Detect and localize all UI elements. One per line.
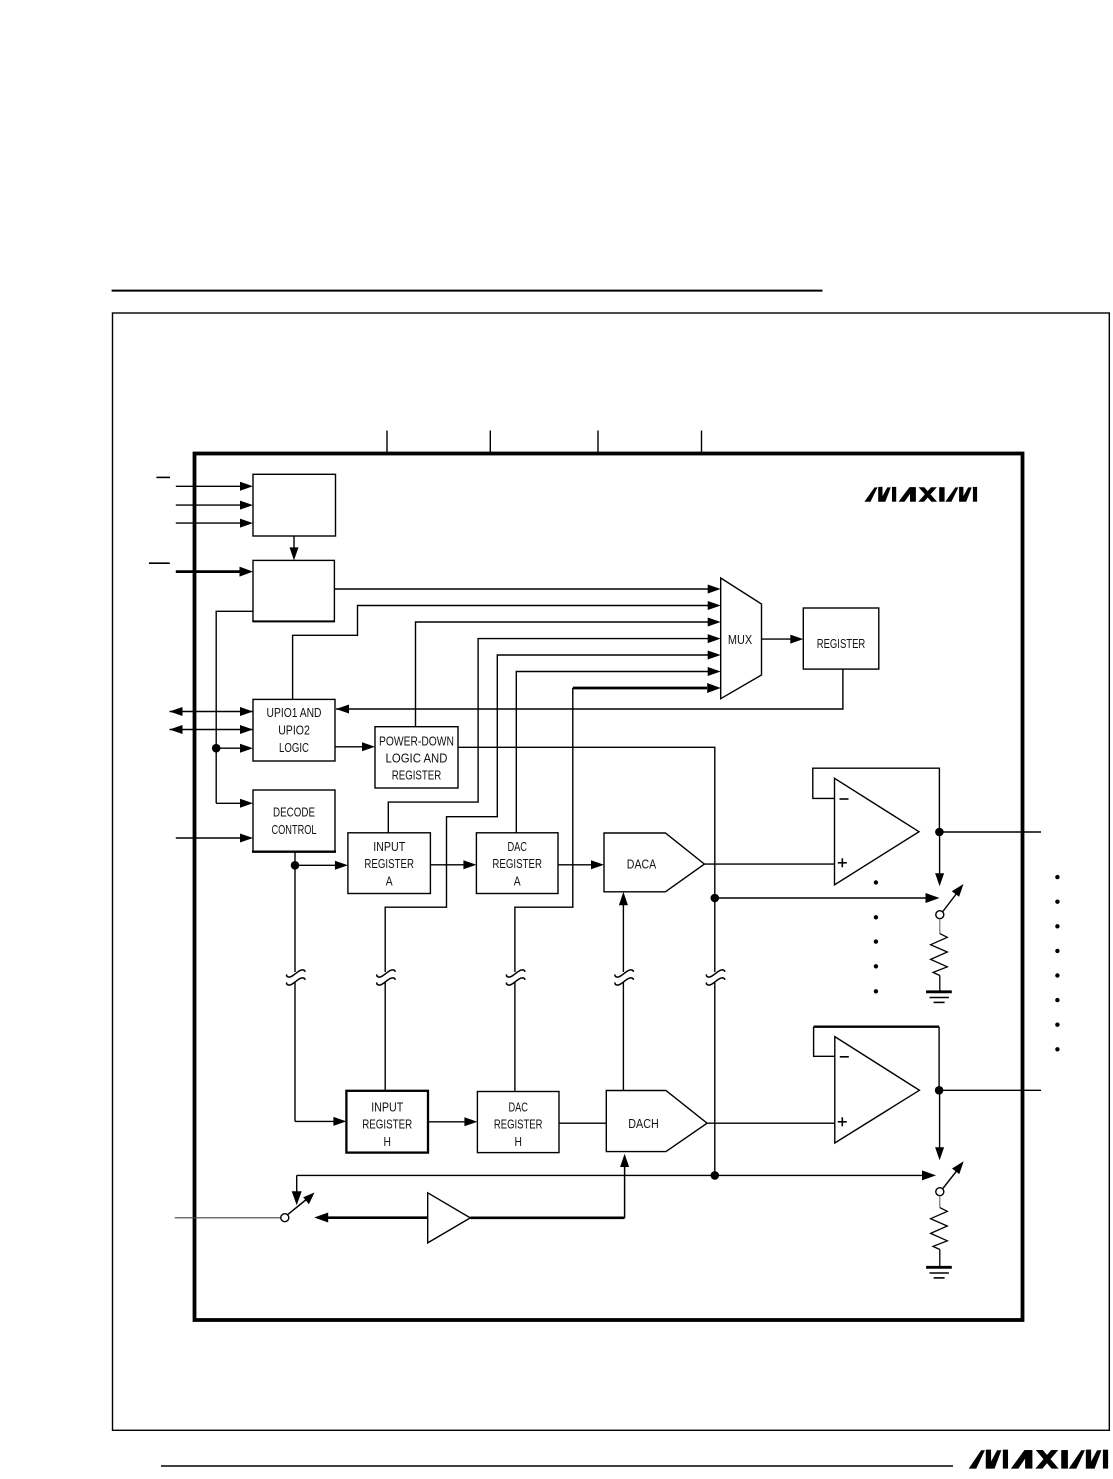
control logic box U2 <box>252 560 335 621</box>
label INPUT REGISTER H <box>362 1099 412 1149</box>
svg-text:DECODE: DECODE <box>273 805 315 820</box>
mux U10 <box>721 578 762 699</box>
svg-text:REGISTER: REGISTER <box>364 858 414 872</box>
DAC register H box U12 <box>477 1092 559 1153</box>
wire op-amp A output OUTA <box>939 831 1041 833</box>
svg-text:REGISTER: REGISTER <box>362 1117 412 1132</box>
wire DACH output to op-amp H <box>707 1122 835 1124</box>
figure outer border <box>113 313 1110 1430</box>
op-amp H U16 <box>835 1037 920 1143</box>
label UPIO1 AND UPIO2 LOGIC <box>267 705 322 756</box>
svg-text:A: A <box>514 873 521 889</box>
node junction on power-down bus lower <box>711 1171 720 1180</box>
wire break symbol on DAC-register-H bus <box>507 970 525 985</box>
wire reference to DACA (with arrow up) <box>619 892 628 1091</box>
wire U5 vertical bus down (upper part) <box>294 852 296 972</box>
input register H box U11 <box>346 1091 428 1153</box>
wire mux input 4 from U6 top <box>388 634 720 833</box>
wire U3 to U4 power-down <box>335 742 375 751</box>
wire bus to U11 input register H <box>295 1117 346 1126</box>
pin tick 3 on top border <box>597 431 599 453</box>
op-amp H plus sign <box>838 1117 847 1126</box>
wire junction to U6 input register A <box>295 861 348 870</box>
UPIO1 and UPIO2 logic box U3 <box>253 699 335 761</box>
label POWER-DOWN LOGIC AND REGISTER <box>379 733 454 783</box>
wire mux input 5 lower part to U11 <box>384 983 386 1091</box>
wire op-amp A output to switch contact <box>935 832 944 886</box>
wire U7 to U8 DACA <box>558 860 604 869</box>
thick wire input pin 4 to U2 <box>176 567 253 577</box>
wire op-amp H feedback loop <box>814 1027 940 1091</box>
wire input pin to U5 decode <box>176 834 253 843</box>
wire input pin 2 to U1 <box>176 501 253 510</box>
wire U9 register to U3 <box>336 669 843 713</box>
svg-text:REGISTER: REGISTER <box>494 1118 543 1132</box>
svg-text:REGISTER: REGISTER <box>392 769 441 783</box>
svg-text:INPUT: INPUT <box>373 839 406 854</box>
label DECODE CONTROL <box>271 805 316 837</box>
op-amp A U15 <box>835 778 920 885</box>
wire op-amp H output OUTH <box>939 1089 1041 1091</box>
wire UPIO2 bidirectional pin <box>170 725 254 734</box>
register box U9 <box>803 608 879 669</box>
node junction below U5 <box>291 861 300 870</box>
svg-text:H: H <box>514 1134 521 1150</box>
wire mux input 3 from U4 top <box>416 618 721 727</box>
overbar of pin 4 name <box>149 562 170 564</box>
svg-text:INPUT: INPUT <box>371 1099 404 1114</box>
ground symbol H <box>926 1267 952 1278</box>
thick wire buffer output to DACH <box>470 1154 629 1218</box>
wire junction to switch SW-H <box>715 1170 936 1180</box>
footer rule line <box>161 1465 953 1467</box>
wire U6 to U7 <box>430 860 476 869</box>
label DAC REGISTER H <box>494 1101 543 1149</box>
thick wire reference to buffer <box>314 1213 428 1223</box>
pin tick 4 on top border <box>701 431 703 453</box>
svg-text:DACH: DACH <box>628 1116 658 1131</box>
serial input logic box U1 <box>253 474 336 536</box>
svg-text:A: A <box>386 873 393 889</box>
svg-text:LOGIC: LOGIC <box>279 742 309 756</box>
switch SW-A blade and pole <box>936 884 964 919</box>
op-amp A plus sign <box>838 858 847 867</box>
node junction on UPIO line <box>212 744 221 753</box>
wire U4 power-down output bus <box>458 747 715 1175</box>
wire U11 to U12 <box>428 1117 477 1126</box>
label DACA <box>627 856 656 871</box>
node junction at op-amp H output <box>935 1086 944 1095</box>
ellipsis dots channels B-G (middle column) <box>874 880 878 993</box>
resistor R-A to ground <box>931 919 948 991</box>
wire mux input 1 from U2 <box>334 585 720 594</box>
label MUX <box>728 632 752 647</box>
top rule line <box>112 290 823 292</box>
wire mux input 2 from U3 top <box>293 601 721 699</box>
wire DACA output to op-amp A <box>704 863 834 865</box>
wire break symbol on decode bus <box>287 970 305 985</box>
wire reference select line left <box>297 1174 715 1176</box>
wire REF input pin <box>175 1217 281 1219</box>
svg-text:DACA: DACA <box>627 856 656 871</box>
DACH converter U13 <box>606 1091 707 1152</box>
wire break symbol on input-register-H bus <box>377 970 395 985</box>
overbar of pin 1 name <box>156 476 170 478</box>
resistor R-H to ground <box>931 1196 948 1267</box>
wire mux input 5 from U11 top (upper part) <box>385 651 721 973</box>
MAXIM logo (inside chip) <box>864 487 977 502</box>
decode control box U5 <box>252 790 336 852</box>
ellipsis dots output pins (right column) <box>1055 875 1059 1052</box>
ground symbol A <box>926 992 952 1003</box>
switch SW-H blade and pole <box>936 1161 964 1195</box>
op-amp H minus sign <box>840 1056 849 1058</box>
wire op-amp A feedback loop <box>813 768 940 832</box>
wire junction to U3 third input <box>216 744 253 753</box>
svg-text:CONTROL: CONTROL <box>271 823 316 837</box>
wire UPIO1 bidirectional pin <box>170 707 254 716</box>
MAXIM logo (page footer) <box>969 1450 1108 1469</box>
label INPUT REGISTER A <box>364 839 414 889</box>
pin tick 2 on top border <box>489 431 491 453</box>
wire input pin 3 to U1 <box>176 519 253 528</box>
DAC register A box U7 <box>476 833 558 894</box>
wire into U5 upper arrow <box>216 799 253 808</box>
svg-text:REGISTER: REGISTER <box>492 858 542 872</box>
wire U2 left to vertical bus <box>216 611 253 803</box>
node junction on power-down bus upper <box>711 894 720 903</box>
pin tick 1 on top border <box>386 431 388 453</box>
wire U5 vertical bus down (lower part) <box>294 983 296 1122</box>
switch SW-REF blade and pole <box>281 1193 315 1222</box>
svg-text:LOGIC AND: LOGIC AND <box>386 751 448 766</box>
svg-text:UPIO2: UPIO2 <box>278 722 310 737</box>
input register A box U6 <box>348 833 431 894</box>
svg-text:POWER-DOWN: POWER-DOWN <box>379 733 454 749</box>
label DAC REGISTER A <box>492 841 542 889</box>
wire mux input 6 from U7 top <box>516 667 720 833</box>
wire down to reference switch contact <box>292 1175 302 1205</box>
wire U1 to U2 <box>290 536 299 560</box>
chip boundary (thick border) <box>195 454 1023 1321</box>
op-amp A minus sign <box>840 798 849 800</box>
svg-text:DAC: DAC <box>507 841 526 855</box>
wire mux to register U9 <box>762 635 804 644</box>
svg-text:UPIO1 AND: UPIO1 AND <box>267 705 322 721</box>
wire op-amp H output to switch contact <box>935 1090 944 1160</box>
wire break symbol on power-down bus <box>706 970 724 985</box>
reference buffer amplifier U14 <box>428 1193 471 1243</box>
wire junction to switch SW-A <box>715 893 940 903</box>
svg-text:DAC: DAC <box>508 1101 527 1115</box>
wire input pin 1 to U1 <box>176 482 253 491</box>
wire break symbol on reference bus <box>615 970 633 985</box>
wire mux input 7 thick from U12 top <box>515 683 721 1092</box>
label DACH <box>628 1116 658 1131</box>
wire U12 to U13 DACH <box>559 1122 606 1124</box>
svg-text:MUX: MUX <box>728 632 752 647</box>
DACA converter U8 <box>604 833 704 892</box>
svg-text:REGISTER: REGISTER <box>817 638 866 652</box>
label REGISTER <box>817 638 866 652</box>
svg-text:H: H <box>383 1134 390 1150</box>
node junction at op-amp A output <box>935 828 944 837</box>
power-down logic and register box U4 <box>375 727 458 788</box>
